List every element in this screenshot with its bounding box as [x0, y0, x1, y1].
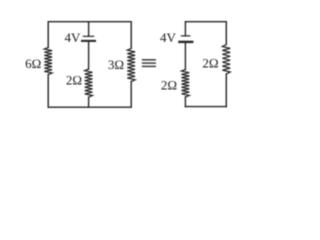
equivalence symbol bar 1	[143, 59, 156, 61]
resistor R4 2Ω zigzag (right circuit left branch)	[182, 70, 190, 98]
battery B1 4V positive plate	[83, 35, 93, 37]
battery B2 4V negative plate	[179, 41, 192, 43]
wire: right branch lower segment (left circuit)	[130, 82, 132, 108]
equivalence symbol bar 3	[143, 65, 156, 67]
svg-text:3Ω: 3Ω	[108, 57, 124, 72]
resistor R3 3Ω zigzag	[127, 48, 135, 81]
wire: right circuit left branch bottom	[184, 97, 186, 107]
battery B1 4V negative plate	[82, 40, 95, 42]
wire: right circuit top	[185, 21, 226, 23]
wire: left branch lower segment	[47, 75, 49, 108]
svg-text:6Ω: 6Ω	[25, 56, 41, 71]
wire: middle branch battery to resistor	[88, 41, 90, 69]
wire: right circuit bottom	[185, 106, 226, 108]
wire: right circuit left branch top to battery	[184, 22, 186, 36]
svg-text:2Ω: 2Ω	[66, 73, 82, 88]
wire: right branch upper segment (left circuit)	[130, 22, 132, 49]
svg-text:4V: 4V	[65, 30, 82, 45]
resistor R5 2Ω zigzag (right circuit right branch)	[222, 45, 230, 75]
resistor R1 6Ω zigzag	[44, 47, 52, 74]
svg-text:4V: 4V	[160, 30, 177, 45]
wire: left branch upper segment	[47, 22, 49, 48]
svg-text:2Ω: 2Ω	[202, 55, 218, 70]
equivalence symbol bar 2	[143, 62, 156, 64]
resistor R2 2Ω zigzag (middle branch)	[85, 69, 93, 97]
wire: left circuit top	[48, 21, 131, 23]
wire: right circuit left branch battery to resistor	[184, 42, 186, 70]
wire: left circuit bottom	[48, 106, 131, 108]
battery B2 4V positive plate	[181, 35, 189, 37]
wire: right circuit right branch upper segment	[225, 22, 227, 45]
wire: right circuit right branch lower segment	[225, 74, 227, 107]
svg-text:2Ω: 2Ω	[161, 77, 177, 92]
wire: middle branch from top to battery	[88, 22, 90, 37]
wire: middle branch bottom	[88, 97, 90, 107]
